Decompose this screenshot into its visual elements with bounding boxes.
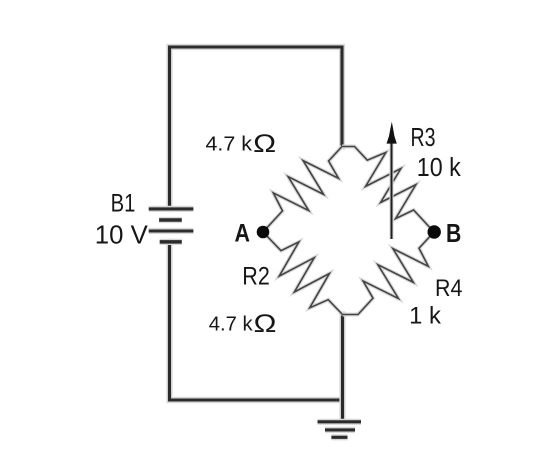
resistor R2	[263, 232, 343, 315]
svg-text:4.7 k: 4.7 k	[209, 314, 254, 336]
potentiometer wiper arrow of R3	[387, 122, 397, 239]
svg-text:R3: R3	[411, 122, 436, 152]
svg-text:Ω: Ω	[253, 130, 276, 158]
node B junction dot	[428, 225, 441, 238]
svg-text:B1: B1	[111, 190, 136, 218]
ground	[318, 422, 362, 438]
node A junction dot	[257, 226, 270, 239]
value label 4.7 kOhm (R2)	[209, 310, 277, 338]
resistor R4	[343, 232, 435, 315]
battery B1	[149, 209, 194, 242]
svg-text:1 k: 1 k	[409, 303, 442, 330]
svg-text:4.7 k: 4.7 k	[206, 133, 254, 155]
wire bottom: battery- to ground node	[170, 242, 343, 400]
wire bridge bottom stem to ground	[339, 315, 345, 422]
svg-text:A: A	[235, 219, 251, 247]
wire top: battery+ to bridge top node	[170, 47, 343, 209]
svg-text:B: B	[446, 218, 461, 248]
svg-text:Ω: Ω	[254, 310, 277, 338]
resistor R3	[342, 147, 434, 233]
svg-text:R4: R4	[435, 275, 462, 302]
value label 4.7 kOhm (R1)	[206, 130, 277, 158]
resistor R1	[263, 147, 342, 233]
svg-text:R2: R2	[242, 262, 269, 290]
svg-text:10 k: 10 k	[417, 154, 461, 182]
svg-text:10 V: 10 V	[95, 222, 148, 250]
